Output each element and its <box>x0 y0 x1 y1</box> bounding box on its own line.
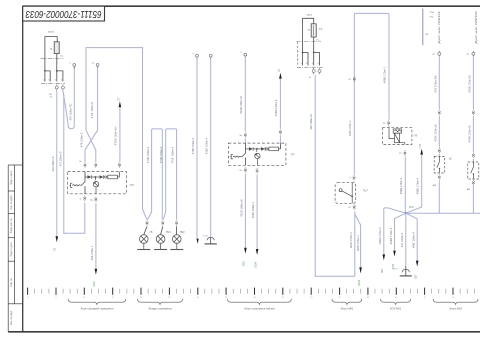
wires to pins <box>303 37 320 66</box>
svg-text:65: 65 <box>395 297 397 299</box>
svg-text:Ш: Ш <box>309 77 311 79</box>
svg-text:498Е 175кч 4: 498Е 175кч 4 <box>415 177 419 194</box>
svg-text:П17: П17 <box>363 189 369 193</box>
wire 473А loop from box1 area up across to lamp column <box>86 48 147 220</box>
svg-text:КСМ МК1: КСМ МК1 <box>390 307 402 311</box>
connector under F2 pin 4 <box>318 68 321 74</box>
svg-text:438Ж 175кч 5: 438Ж 175кч 5 <box>378 227 382 245</box>
wires to pins <box>45 54 63 82</box>
brace harness 1 <box>68 299 126 305</box>
svg-text:Датчик МК01: Датчик МК01 <box>437 11 441 44</box>
svg-text:ПСТ: ПСТ <box>307 13 313 17</box>
relay П5 dashed enclosure <box>382 128 412 145</box>
wire 409 down to arrow <box>95 203 97 269</box>
connector below box1 mid <box>95 197 97 202</box>
wire 438 long run from fuse2 down, across, up to box П17 <box>315 75 355 276</box>
svg-text:498Д 175кч 4: 498Д 175кч 4 <box>399 177 403 194</box>
svg-text:Жгут фонарей освещения: Жгут фонарей освещения <box>80 307 114 311</box>
svg-text:407 150кч ПС: 407 150кч ПС <box>69 103 73 120</box>
svg-text:ПУП: ПУП <box>48 30 54 34</box>
fuse F2 body <box>311 24 316 37</box>
svg-text:9/2Б: 9/2Б <box>243 261 246 266</box>
box1 switch <box>69 182 85 188</box>
brace harness 3 <box>228 299 292 305</box>
ground at node <box>400 266 412 276</box>
svg-text:П7: П7 <box>291 152 295 156</box>
connector above relay П5 <box>388 120 390 125</box>
connector below box2 left <box>244 167 246 172</box>
svg-text:473Г 150кч 4: 473Г 150кч 4 <box>170 147 174 163</box>
box3 switch contact <box>339 183 352 204</box>
service loop lamp2-lamp3 <box>163 129 176 220</box>
header marks А1 <box>422 9 424 46</box>
wire 473 U-loop: box1 left outlet down, across, up to fuse1 pin4 <box>63 91 85 233</box>
box1 switch-side outlet <box>84 186 86 194</box>
svg-text:П5: П5 <box>414 134 418 138</box>
brace harness 5 <box>381 299 411 305</box>
sensor 1 connector <box>438 51 441 57</box>
svg-text:438А 150кч 4: 438А 150кч 4 <box>205 137 209 154</box>
svg-text:10: 10 <box>83 297 85 299</box>
wire 479Б terminal <box>196 54 199 59</box>
svg-text:15: 15 <box>112 297 114 299</box>
svg-text:479Б 150кч 4: 479Б 150кч 4 <box>191 137 195 154</box>
svg-text:60: 60 <box>367 297 369 299</box>
fuse F1 body <box>54 42 59 54</box>
title box <box>23 6 105 21</box>
component boundary dash-dot <box>297 41 322 43</box>
svg-text:ЛВ: ЛВ <box>54 248 57 252</box>
svg-text:75: 75 <box>452 297 454 299</box>
branch to arrow 1 <box>384 208 406 254</box>
svg-text:ЛЗВ: ЛЗВ <box>430 12 435 14</box>
svg-text:50: 50 <box>310 297 312 299</box>
node МЛ1 <box>405 212 407 214</box>
connector below box1 left <box>84 196 86 201</box>
connector under pin 2 <box>55 84 58 90</box>
wire 478А <box>438 116 440 147</box>
svg-text:/1М: /1М <box>430 17 434 19</box>
svg-text:473 150кч Ф: 473 150кч Ф <box>58 151 62 166</box>
wire 433П down to arrow <box>244 174 246 248</box>
svg-text:479 150кч 5: 479 150кч 5 <box>79 132 83 147</box>
svg-text:МЛБ 175кч 1: МЛБ 175кч 1 <box>349 232 353 248</box>
box1 diode chain <box>85 176 88 178</box>
svg-text:ГВ: ГВ <box>150 231 153 234</box>
svg-text:Жгут освещения кабины: Жгут освещения кабины <box>243 307 275 311</box>
box1 transistor element <box>93 177 98 194</box>
wire 433М terminal <box>244 53 247 58</box>
box2 transistor element <box>255 149 260 165</box>
box1 inlet vertical to switch blade <box>84 172 86 182</box>
connector into box1 left inlet <box>84 162 86 167</box>
ruler scale <box>28 288 475 295</box>
svg-text:АМ: АМ <box>433 184 436 187</box>
svg-text:409А 108кч 1: 409А 108кч 1 <box>251 201 255 218</box>
svg-text:478В 175кч Ж: 478В 175кч Ж <box>467 125 471 143</box>
svg-text:19/П1: 19/П1 <box>202 235 209 237</box>
connector in 498Б run <box>353 76 355 81</box>
wire A diagonal into box1 top (crossing) <box>86 130 96 162</box>
component boundary dash-dot <box>41 57 64 59</box>
svg-text:433П 108кч Ж: 433П 108кч Ж <box>240 199 244 217</box>
svg-text:35: 35 <box>225 297 227 299</box>
left margin strip <box>8 165 23 332</box>
branch to arrow 2 <box>395 213 406 250</box>
svg-text:ГВ/1: ГВ/1 <box>166 231 172 234</box>
svg-text:438И 175кч 5: 438И 175кч 5 <box>389 227 393 244</box>
svg-text:Жгут МК1: Жгут МК1 <box>339 307 354 311</box>
svg-text:Инв. № дубл.: Инв. № дубл. <box>10 195 13 210</box>
svg-text:П0: П0 <box>130 183 134 187</box>
connector under pin 4 <box>61 84 64 90</box>
connector into box1 mid inlet <box>95 162 97 167</box>
connector above box2 left <box>244 132 246 137</box>
branch to arrow 3 <box>406 213 417 260</box>
svg-text:5: 5 <box>55 297 56 299</box>
wire 479Б down to arrow tip <box>196 58 198 239</box>
svg-text:473В 150кч 4: 473В 150кч 4 <box>159 146 163 163</box>
svg-text:СТ: СТ <box>117 97 120 101</box>
svg-text:19/П2: 19/П2 <box>393 268 400 270</box>
svg-text:473Г 150кч Б: 473Г 150кч Б <box>90 102 94 118</box>
svg-text:СТ: СТ <box>278 68 281 72</box>
svg-text:9г: 9г <box>80 199 82 201</box>
svg-text:40: 40 <box>253 297 255 299</box>
door switch В2 <box>434 157 445 174</box>
svg-text:409 270кч 1: 409 270кч 1 <box>90 245 94 260</box>
svg-text:498Б 175кч 1: 498Б 175кч 1 <box>383 66 387 83</box>
svg-text:Фонари освещения: Фонари освещения <box>148 307 172 311</box>
frame left border <box>22 6 24 332</box>
box П7 dashed enclosure <box>228 143 286 165</box>
dashed enclosure left edge <box>297 42 299 65</box>
svg-text:МЛ1: МЛ1 <box>409 207 414 209</box>
branch to sensors (right horizontal) <box>406 212 480 214</box>
svg-text:55: 55 <box>339 297 341 299</box>
pin row dash-dot <box>41 83 65 85</box>
svg-text:25: 25 <box>168 297 170 299</box>
svg-text:479Ж 150кч Бч: 479Ж 150кч Бч <box>114 126 118 145</box>
svg-text:9/2Г: 9/2Г <box>381 267 384 272</box>
svg-text:ГВ/2: ГВ/2 <box>180 231 186 234</box>
box2 diode chain <box>246 148 249 150</box>
svg-text:Подп. и дата: Подп. и дата <box>10 170 13 185</box>
svg-text:478 175кч Ж6: 478 175кч Ж6 <box>433 75 437 93</box>
fuse F1 loop wire <box>45 37 57 59</box>
chassis ground <box>205 237 217 244</box>
relay contact block <box>389 128 405 145</box>
lamp connector 3 <box>176 220 178 225</box>
fuse F2 loop wire <box>303 18 314 41</box>
frame top border <box>23 5 480 7</box>
brace harness 4 <box>332 299 362 305</box>
svg-text:45: 45 <box>282 297 284 299</box>
svg-text:421 183кч 4: 421 183кч 4 <box>400 232 404 247</box>
svg-text:МЛВ 175кч 1: МЛВ 175кч 1 <box>356 235 360 251</box>
pin row dash-dot <box>297 66 323 68</box>
svg-text:0: 0 <box>27 297 28 299</box>
box2 switch-side outlet <box>245 158 247 166</box>
connector below relay П5 <box>404 150 406 155</box>
box2 resistor <box>269 147 279 151</box>
svg-text:70: 70 <box>424 297 426 299</box>
svg-text:479М 150кч 4: 479М 150кч 4 <box>274 99 278 116</box>
connector below box2 right <box>256 168 258 173</box>
svg-text:4/1Б: 4/1Б <box>93 281 96 286</box>
lamp ГВ <box>144 226 147 234</box>
svg-text:МЛ5 175кч 1: МЛ5 175кч 1 <box>348 120 352 136</box>
svg-text:АМ: АМ <box>467 188 470 191</box>
connector under F2 pin 2 <box>312 68 315 74</box>
lamp ГВ/1 <box>161 226 163 234</box>
service loop lamp1-lamp2 <box>148 129 163 220</box>
wire 478Б sensor2 <box>472 57 474 109</box>
frame bottom border <box>8 331 480 333</box>
wire 478 sensor1 <box>438 57 440 109</box>
wire B from terminal 2а down crossing to box1 left inlet <box>96 64 99 69</box>
svg-text:65111-3700002-6033: 65111-3700002-6033 <box>25 8 101 19</box>
box П17 dashed enclosure <box>335 183 356 204</box>
svg-text:473Б 150кч 4: 473Б 150кч 4 <box>146 146 150 163</box>
svg-text:Инв. № подл.: Инв. № подл. <box>10 310 13 325</box>
wire 498Д to node <box>404 156 406 213</box>
svg-text:20: 20 <box>140 297 142 299</box>
connector above box П17 <box>353 175 355 180</box>
wire 409А down to arrow <box>256 175 258 249</box>
box П0 dashed enclosure <box>68 172 127 194</box>
svg-text:438 108кч Ж: 438 108кч Ж <box>309 114 313 130</box>
wire 438А terminal <box>209 54 212 59</box>
box2 switch <box>230 153 246 159</box>
svg-text:Датчик МК02: Датчик МК02 <box>474 11 478 44</box>
svg-text:Подп. и дата: Подп. и дата <box>10 242 13 257</box>
service loop to terminal a <box>63 67 74 129</box>
svg-text:Взам. инв. №: Взам. инв. № <box>10 218 13 233</box>
svg-text:СТ1: СТ1 <box>419 143 422 148</box>
connector into box1 right riser <box>118 162 120 167</box>
svg-text:30: 30 <box>197 297 199 299</box>
svg-text:433 150кч Ф: 433 150кч Ф <box>51 156 55 171</box>
box1 resistor <box>108 175 118 179</box>
svg-text:Спр. №: Спр. № <box>10 278 13 287</box>
svg-text:433М 150кч Ж: 433М 150кч Ж <box>239 96 243 114</box>
svg-text:Б/2М: Б/2М <box>358 280 361 286</box>
sensor 2 connector <box>472 51 475 57</box>
wire 433 from fuse1 pin2 down to arrow <box>56 91 58 236</box>
wire 498Б loop across top to relay П5 <box>354 13 389 119</box>
svg-text:478Б 175кч Ж: 478Б 175кч Ж <box>467 75 471 93</box>
lamp ГВ/2 <box>176 226 178 234</box>
terminal a <box>73 64 76 69</box>
svg-text:Жгут МК2: Жгут МК2 <box>448 307 463 311</box>
lamp connector 2 <box>162 220 164 225</box>
door switch В3 <box>468 162 479 179</box>
lamp connector 1 <box>146 220 148 225</box>
branch down to ground <box>405 213 407 266</box>
svg-text:498Г 183кч 4: 498Г 183кч 4 <box>411 232 415 248</box>
box2 inlet vertical <box>245 143 247 153</box>
wire 438А down to chassis ground <box>210 58 212 238</box>
svg-text:Б/1М: Б/1М <box>254 262 257 268</box>
brace harness 6 <box>433 299 478 305</box>
brace harness 2 <box>138 299 183 305</box>
svg-text:30А: 30А <box>318 28 322 31</box>
connector below В2 <box>438 174 440 179</box>
svg-text:Б/2Г: Б/2Г <box>415 273 418 279</box>
wire МЛВ branch to arrow <box>355 214 361 268</box>
connector below box П17 <box>353 204 355 209</box>
connector above box2 right <box>279 129 281 134</box>
connector below В3 <box>472 180 474 185</box>
svg-text:478А 175кч Ж: 478А 175кч Ж <box>433 124 437 142</box>
